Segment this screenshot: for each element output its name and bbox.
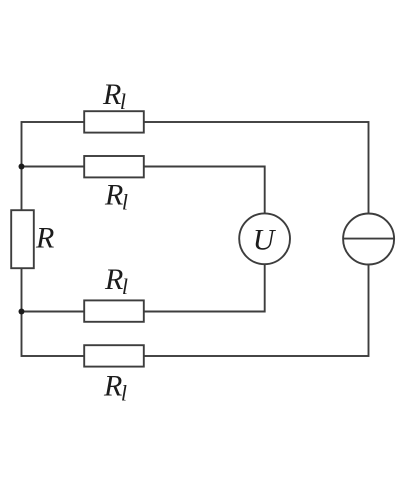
node B junction dot [19,309,25,315]
resistor R (left vertical) [11,210,34,268]
svg-text:Rl: Rl [103,370,127,406]
current source bar [343,238,394,240]
wire row3: voltmeter bottom to node B [22,264,265,312]
current source I circle [343,214,394,265]
resistor R1 (top) [84,111,144,132]
svg-text:Rl: Rl [102,78,126,114]
wire outer loop (top, left, right, bottom) [22,122,369,356]
svg-text:U: U [253,224,277,257]
node A junction dot [19,164,25,170]
svg-text:Rl: Rl [104,263,128,299]
resistor R2 (row 2) [84,156,144,177]
resistor R3 (row 3) [84,300,144,321]
svg-text:Rl: Rl [104,179,128,215]
svg-text:R: R [35,222,54,255]
resistor R4 (bottom) [84,345,144,366]
wire row2: node A to voltmeter top [22,167,265,214]
voltmeter U circle [239,213,290,264]
